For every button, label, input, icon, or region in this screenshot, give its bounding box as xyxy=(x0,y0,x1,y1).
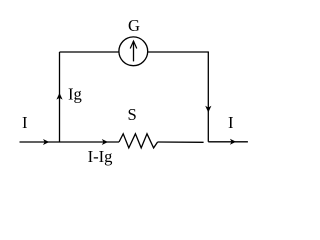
galvanometer G (circle body) xyxy=(119,37,148,66)
wire top-right from galvanometer xyxy=(148,51,209,53)
wire left branch vertical xyxy=(59,52,61,142)
current arrowhead I-Ig (before resistor) xyxy=(102,139,108,145)
current arrowhead down (right branch) xyxy=(205,106,211,113)
galvanometer internal arrow shaft xyxy=(133,41,135,61)
galvanometer internal arrowhead barbs xyxy=(130,41,137,48)
wire from resistor to right node xyxy=(158,141,204,143)
current arrowhead I output (bottom right wire) xyxy=(230,139,236,145)
current arrowhead Ig (up, left branch) xyxy=(56,93,62,100)
svg-text:I: I xyxy=(22,113,28,132)
svg-text:G: G xyxy=(128,16,140,35)
svg-text:I: I xyxy=(228,113,234,132)
wire right branch vertical xyxy=(207,52,209,142)
wire bottom-left with resistor run xyxy=(20,141,120,143)
svg-text:Ig: Ig xyxy=(68,84,82,103)
wire bottom-right output xyxy=(208,141,248,143)
resistor S (shunt zigzag) xyxy=(119,134,158,148)
svg-text:I-Ig: I-Ig xyxy=(88,147,113,166)
current arrowhead I input (on bottom wire) xyxy=(43,139,49,145)
wire top-left to galvanometer xyxy=(60,51,120,53)
svg-text:S: S xyxy=(128,105,137,124)
